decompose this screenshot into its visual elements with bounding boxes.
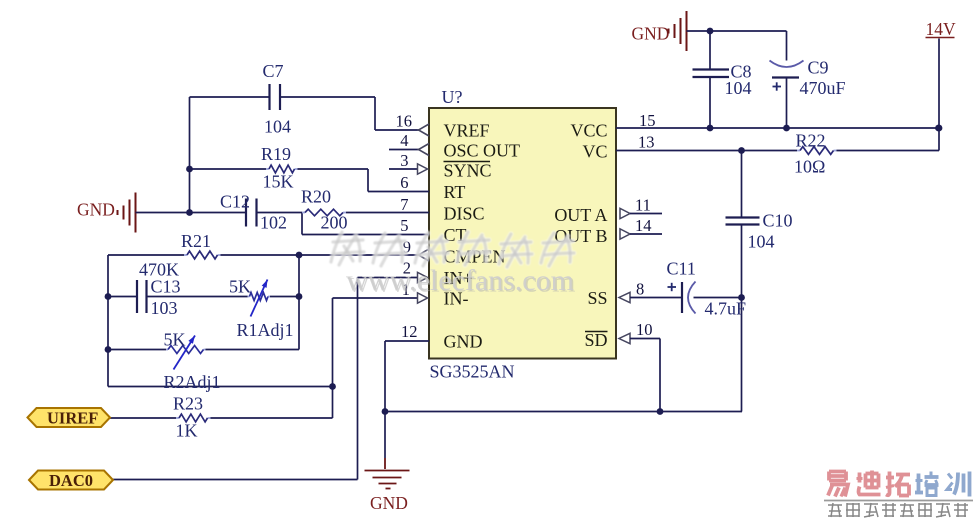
svg-text:12: 12 [401, 322, 418, 341]
svg-text:R19: R19 [261, 144, 291, 164]
svg-text:102: 102 [260, 213, 287, 233]
svg-text:3: 3 [400, 151, 408, 170]
svg-text:8: 8 [636, 280, 644, 299]
svg-text:13: 13 [638, 133, 655, 152]
svg-text:14: 14 [635, 216, 652, 235]
svg-text:R23: R23 [173, 394, 203, 414]
svg-text:6: 6 [400, 173, 408, 192]
svg-text:GND: GND [77, 200, 115, 220]
svg-text:DISC: DISC [444, 204, 485, 224]
svg-text:4.7uF: 4.7uF [705, 299, 747, 319]
svg-text:www.elecfans.com: www.elecfans.com [346, 264, 574, 297]
svg-text:UIREF: UIREF [47, 409, 98, 428]
svg-text:GND: GND [632, 24, 670, 44]
svg-text:16: 16 [396, 112, 413, 131]
svg-text:SYNC: SYNC [444, 161, 492, 181]
svg-text:C12: C12 [220, 192, 250, 212]
svg-text:SS: SS [587, 288, 607, 308]
svg-text:R2Adj1: R2Adj1 [164, 372, 221, 392]
svg-text:R21: R21 [181, 231, 211, 251]
svg-text:OUT A: OUT A [554, 205, 607, 225]
svg-text:VREF: VREF [444, 121, 490, 141]
svg-text:C11: C11 [667, 259, 696, 279]
svg-text:4: 4 [400, 131, 408, 150]
svg-text:R20: R20 [301, 187, 331, 207]
svg-text:R22: R22 [796, 131, 826, 151]
svg-text:104: 104 [264, 117, 291, 137]
svg-text:GND: GND [370, 493, 408, 513]
svg-text:C9: C9 [808, 58, 829, 78]
svg-text:5: 5 [400, 216, 408, 235]
svg-text:10Ω: 10Ω [794, 157, 825, 177]
svg-text:15K: 15K [263, 172, 294, 192]
svg-text:C7: C7 [263, 61, 284, 81]
svg-text:470uF: 470uF [800, 78, 846, 98]
svg-text:VC: VC [582, 142, 607, 162]
svg-text:C10: C10 [763, 211, 793, 231]
svg-text:104: 104 [748, 232, 775, 252]
svg-text:5K: 5K [229, 277, 251, 297]
svg-text:15: 15 [639, 111, 656, 130]
svg-text:5K: 5K [164, 330, 186, 350]
svg-text:OSC OUT: OSC OUT [444, 141, 521, 161]
svg-text:14V: 14V [926, 19, 957, 39]
svg-text:10: 10 [636, 320, 653, 339]
svg-text:200: 200 [321, 213, 348, 233]
svg-text:RT: RT [444, 182, 466, 202]
svg-text:U?: U? [442, 87, 463, 107]
svg-text:DAC0: DAC0 [49, 471, 93, 490]
svg-text:103: 103 [151, 298, 178, 318]
svg-text:7: 7 [400, 195, 408, 214]
svg-text:GND: GND [444, 332, 483, 352]
svg-text:R1Adj1: R1Adj1 [237, 320, 294, 340]
svg-text:C13: C13 [151, 277, 181, 297]
svg-text:VCC: VCC [570, 121, 607, 141]
svg-text:104: 104 [725, 78, 752, 98]
svg-text:1K: 1K [176, 421, 198, 441]
svg-text:SG3525AN: SG3525AN [430, 362, 515, 382]
svg-text:SD: SD [584, 330, 607, 350]
svg-text:11: 11 [635, 196, 651, 215]
